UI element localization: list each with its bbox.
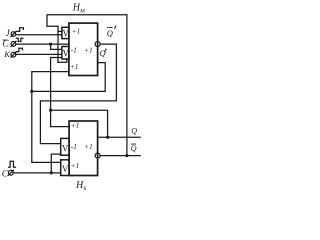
svg-text:Q: Q [131, 144, 137, 153]
label V in V1 [63, 28, 70, 38]
input K label [3, 49, 11, 59]
weight -1 (master row2) [71, 46, 77, 55]
junction dot C branch [50, 171, 53, 174]
weight +1 (slave row3) [71, 161, 80, 170]
terminal Cbar [11, 42, 16, 47]
svg-text:C: C [2, 169, 9, 179]
input J label [6, 29, 11, 39]
junction dot Cbar branch [49, 43, 52, 46]
wire Cbar to block row2 [16, 43, 69, 45]
svg-text:+1: +1 [71, 161, 80, 170]
label Qbar-prime [107, 27, 113, 38]
svg-text:+1: +1 [84, 46, 93, 55]
svg-text:+1: +1 [84, 142, 93, 151]
inversion bubble (slave output) [95, 153, 100, 158]
label Hs (slave element name) [75, 180, 86, 192]
OR box V1 (slave) [61, 138, 69, 155]
label Q [131, 127, 137, 136]
OR box V2 (slave) [61, 160, 69, 176]
svg-text:V: V [62, 143, 69, 153]
svg-text:V: V [63, 48, 70, 58]
weight +1 (master row1) [72, 27, 81, 36]
waveform step-up at K [16, 48, 22, 51]
label Qbar [131, 144, 137, 154]
wire rail stub into V1 top input [58, 30, 62, 32]
svg-text:Q: Q [131, 127, 137, 136]
wire Q feedback into V2 low input [51, 58, 70, 127]
svg-text:K: K [3, 49, 11, 59]
waveform pulse-up at C [9, 161, 16, 167]
waveform step-up at J [17, 28, 24, 32]
svg-text:C: C [2, 39, 9, 49]
wire C to slave V2 [13, 172, 60, 174]
junction dot on Q line [106, 136, 109, 139]
label V in V2 [63, 48, 70, 58]
wire K to V2 [16, 53, 62, 55]
svg-text:+1: +1 [72, 27, 81, 36]
wire C branch up into slave V1 bottom input [51, 154, 60, 173]
wire Qbar output line [100, 155, 140, 157]
wire top feedback rail (Qbar to V1) [47, 15, 127, 156]
junction dot Q feedback branch [49, 109, 52, 112]
wire Q-prime up into master row3 [32, 72, 69, 92]
wire U path under V boxes into V2 bottom [58, 59, 67, 62]
weight +1 (master row3) [70, 62, 79, 71]
inversion bubble (master output) [95, 42, 100, 47]
svg-text:Q: Q [107, 28, 113, 38]
svg-text:+1: +1 [70, 62, 79, 71]
weight +1 (master row2) [84, 46, 93, 55]
junction dot Qbar to rail [125, 154, 128, 157]
svg-text:Hs: Hs [75, 180, 86, 192]
waveform pulse-down at Cbar [16, 38, 23, 41]
junction dot Q-prime node [30, 90, 33, 93]
wire Q-prime output to feedback node [32, 63, 105, 92]
element Hm main threshold block [69, 23, 98, 75]
OR box V2 (master, inputs Cbar/K/Q feedback) [62, 47, 69, 59]
wire Cbar branch down to V2 top input [51, 44, 62, 49]
OR box V1 (master, inputs J + Qbar feedback) [62, 27, 69, 38]
wire Q-prime down into slave V2 low input [32, 91, 61, 162]
label V in slave V2 [62, 164, 69, 174]
svg-text:J: J [6, 29, 11, 39]
svg-text:Q: Q [99, 48, 105, 58]
svg-text:+1: +1 [71, 121, 80, 130]
svg-text:-1: -1 [71, 142, 77, 151]
wire Q output line [98, 136, 141, 138]
wire rail corner into V1 [47, 26, 58, 62]
input Cbar label [2, 39, 9, 49]
wire Qbar-prime from bubble to slave V1 [40, 44, 116, 144]
label Hm (master element name) [72, 3, 85, 15]
element Hs main threshold block [69, 121, 98, 176]
svg-text:V: V [63, 28, 70, 38]
label Q-prime [99, 48, 105, 58]
svg-text:-1: -1 [71, 46, 77, 55]
terminal C [9, 170, 14, 175]
wire J to V1 [16, 34, 62, 36]
terminal K [11, 52, 16, 57]
svg-text:Hм: Hм [72, 3, 85, 15]
weight +1 (slave row2) [84, 142, 93, 151]
svg-text:V: V [62, 164, 69, 174]
weight +1 (slave row1) [71, 121, 80, 130]
label V in slave V1 [62, 143, 69, 153]
wire Q feedback from Q line [51, 110, 108, 137]
input C label [2, 169, 9, 179]
terminal J [11, 32, 16, 37]
weight -1 (slave row2) [71, 142, 77, 151]
